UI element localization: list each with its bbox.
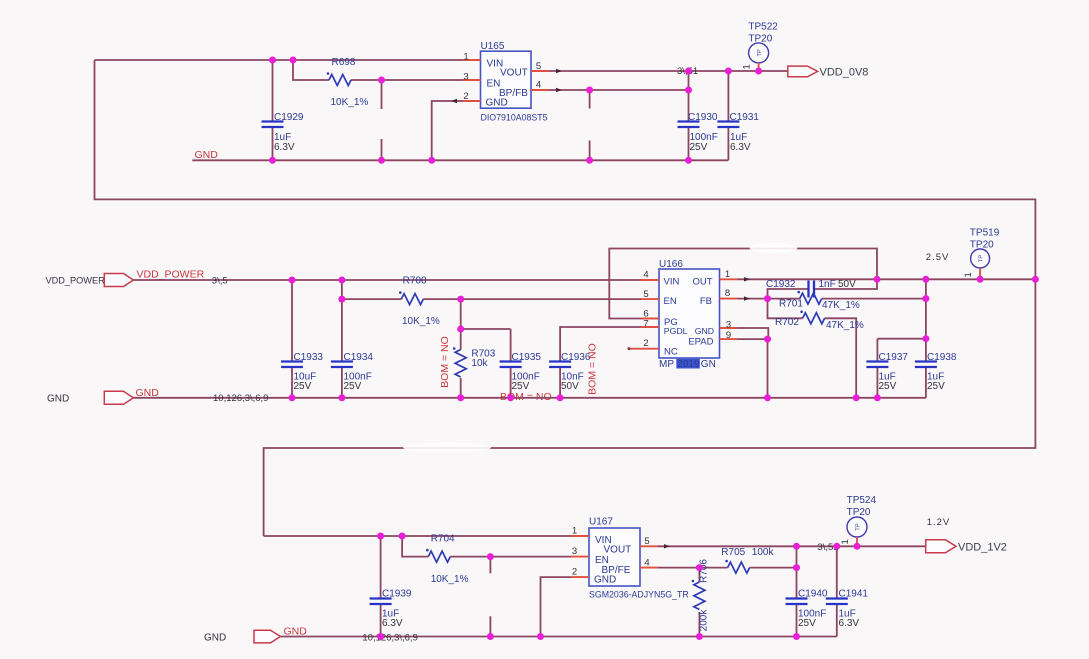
svg-text:C1940: C1940 [798,589,828,600]
svg-text:GND: GND [136,387,160,399]
svg-text:1: 1 [742,64,753,69]
svg-text:3\,5: 3\,5 [212,275,228,286]
svg-text:C1939: C1939 [382,589,412,600]
svg-text:1nF: 1nF [819,279,836,290]
svg-text:VDD_0V8: VDD_0V8 [820,66,869,78]
svg-text:R705: R705 [721,547,745,558]
wire GND rail middle [133,397,926,399]
svg-text:25V: 25V [879,381,897,392]
svg-text:C1935: C1935 [512,352,542,363]
svg-text:GND: GND [47,393,69,404]
svg-text:R700: R700 [403,275,427,286]
resistor R702 [768,299,864,398]
junction dots middle section [289,276,1039,402]
svg-text:1: 1 [463,52,468,63]
wire output caps rail [877,279,926,338]
wire GND rail bottom [280,636,837,638]
capacitor C1930 [678,71,718,160]
svg-text:MP: MP [659,359,674,370]
resistor R701 [768,291,926,311]
svg-text:R704: R704 [431,534,455,545]
svg-text:TP20: TP20 [847,507,871,518]
wire BP/FB net [549,89,689,91]
svg-text:NC: NC [664,347,678,358]
svg-text:4: 4 [536,80,541,91]
capacitor C1937 [866,339,908,398]
svg-text:VDD_POWER: VDD_POWER [46,275,106,285]
svg-text:C1933: C1933 [294,352,324,363]
svg-text:2.5V: 2.5V [926,252,950,263]
resistor R706 (vertical) [692,559,710,637]
svg-text:R702: R702 [775,317,799,328]
svg-text:1: 1 [572,526,577,537]
svg-text:5: 5 [643,289,648,300]
wire tick marks [451,69,750,549]
svg-text:6.3V: 6.3V [730,142,751,153]
svg-text:47K_1%: 47K_1% [822,300,860,311]
junction dots top section [269,57,762,164]
svg-text:10K_1%: 10K_1% [431,574,469,585]
svg-text:3: 3 [726,320,731,331]
svg-text:GN: GN [701,359,716,370]
wire R703/C1935 branch [461,299,511,329]
resistor R705 [721,547,774,573]
pin 3 U165 [463,72,481,83]
svg-text:U165: U165 [481,41,505,52]
svg-text:FB: FB [700,296,712,307]
svg-text:C1930: C1930 [688,112,718,123]
svg-text:2: 2 [643,338,648,349]
wire no-stuff stubs at x=381.5 [381,80,383,160]
svg-text:100k: 100k [752,547,775,558]
svg-text:200k: 200k [699,609,710,632]
wire PGDL net to C1936 [560,327,641,361]
pin 8 U166 [720,288,738,299]
pin 6 U166 [641,309,659,320]
svg-text:2: 2 [572,567,577,578]
resistor R698 [327,57,369,108]
capacitor C1931 [717,71,759,160]
wire VIN net top (to U165 pin1) [95,59,463,61]
pin 2 U165 [463,91,481,102]
wire U165 GND pin2 to rail [432,101,463,160]
svg-text:6.3V: 6.3V [274,142,295,153]
pin 3 U167 [571,546,589,557]
node GND flag (middle) [104,391,133,404]
capacitor C1932 (horizontal, feed-forward) [766,279,877,299]
svg-text:50V: 50V [838,279,856,290]
pin 4 U167 [640,557,658,568]
svg-text:6.3V: 6.3V [382,618,403,629]
testpoint TP522 [742,22,779,71]
capacitor C1935 [500,329,542,398]
svg-text:GND: GND [695,326,714,336]
wire no-stuff stubs at x=490.4 [489,557,491,637]
op-amp U165 [481,41,548,123]
op-amp U167 [589,517,689,600]
node VDD_POWER flag [104,274,133,287]
svg-text:C1938: C1938 [927,352,957,363]
wire U167 GND pin2 to rail [541,577,572,636]
svg-text:U167: U167 [589,517,613,528]
svg-text:VOUT: VOUT [500,68,528,79]
pin 5 U166 [641,289,659,300]
capacitor C1933 [281,280,323,398]
wire BP/FE net with R705 [658,546,797,567]
svg-text:VIN: VIN [664,276,680,287]
svg-text:BOM = NO: BOM = NO [439,336,451,388]
svg-text:25V: 25V [690,142,708,153]
wire FB net [738,298,768,300]
pin 1 U165 [463,52,481,63]
svg-text:VOUT: VOUT [604,545,632,556]
svg-text:1: 1 [963,272,974,277]
wire VOUT net (VDD_0V8) [549,70,788,72]
svg-text:TP: TP [979,255,985,263]
svg-text:47K_1%: 47K_1% [826,320,864,331]
wire VIN net bottom [264,535,571,537]
svg-text:OUT: OUT [692,276,712,287]
pin 5 U165 [531,61,549,72]
svg-text:SGM2036-ADJYN5G_TR: SGM2036-ADJYN5G_TR [589,590,689,600]
svg-text:4: 4 [644,557,649,568]
svg-text:C1937: C1937 [879,352,909,363]
node VDD_1V2 flag [926,540,1007,554]
pin 4 U166 [641,270,659,281]
pin 1 U167 [571,526,589,537]
pin 4 U165 [531,80,549,91]
svg-text:25V: 25V [294,381,312,392]
svg-text:6.3V: 6.3V [839,618,860,629]
svg-text:25V: 25V [798,618,816,629]
svg-text:C1941: C1941 [839,589,869,600]
svg-text:EPAD: EPAD [688,337,713,348]
svg-text:4: 4 [643,270,648,281]
svg-text:C1929: C1929 [274,112,304,123]
svg-text:GND: GND [284,625,308,637]
svg-text:5: 5 [536,61,541,72]
resistor R700 [399,275,440,327]
resistor R703 (vertical, BOM=NO) [453,329,496,398]
node GND flag (bottom) [254,630,280,643]
wire EN branch with R698 [293,60,463,80]
wire R704 branch [402,536,571,557]
svg-text:9: 9 [726,330,731,341]
svg-text:R698: R698 [332,57,356,68]
wire PG pull-up to OUT net [609,249,877,319]
svg-text:3: 3 [463,72,468,83]
svg-text:EN: EN [664,296,677,307]
svg-text:TP: TP [856,523,862,531]
capacitor C1940 [786,568,828,637]
svg-text:C1932: C1932 [766,279,796,290]
wire GND rail top [192,159,728,161]
pin 7 U166 [641,319,659,330]
svg-text:VDD_1V2: VDD_1V2 [958,541,1007,553]
scan artifact blobs [403,243,798,453]
svg-text:1: 1 [725,269,730,280]
svg-text:8: 8 [725,288,730,299]
junction dots bottom section [377,533,860,641]
wire GND pin3 to EPAD [738,328,769,398]
capacitor C1939 [370,536,412,637]
op-amp U166 [659,259,720,370]
svg-text:VDD_POWER: VDD_POWER [137,269,205,281]
svg-text:GND: GND [204,632,226,643]
svg-text:R701: R701 [779,299,803,310]
svg-text:5: 5 [644,536,649,547]
svg-text:TP524: TP524 [847,495,877,506]
capacitor C1938 [915,339,957,398]
svg-text:GND: GND [195,149,219,161]
wire OUT net 2.5V [738,278,1036,280]
svg-text:1: 1 [840,539,851,544]
svg-text:C1931: C1931 [730,112,760,123]
svg-text:25V: 25V [927,381,945,392]
svg-text:10K_1%: 10K_1% [402,316,440,327]
pin 2 U166 (NC) [628,338,659,350]
capacitor C1929 [262,60,304,160]
wire no-stuff stubs at x=589.6 [589,90,591,160]
svg-text:TP522: TP522 [748,22,778,33]
svg-text:2: 2 [463,91,468,102]
pin 3 U166 [720,320,738,331]
svg-text:BOM = NO: BOM = NO [587,343,599,395]
wire 2V5 feed loop (U166 OUT to U165 VIN and to U167 VIN) [95,60,1036,536]
svg-text:2019: 2019 [677,359,700,370]
svg-text:GND: GND [594,575,616,586]
svg-text:TP519: TP519 [970,228,1000,239]
svg-text:1.2V: 1.2V [927,517,951,528]
svg-text:PGDL: PGDL [664,326,688,336]
wire EN branch from VDD [342,280,641,299]
testpoint TP519 [963,228,1000,279]
svg-text:3: 3 [572,546,577,557]
capacitor C1936 [549,352,591,398]
pin 1 U166 [720,269,738,280]
pin 9 U166 [720,330,738,341]
capacitor C1941 [826,546,869,636]
svg-text:10k: 10k [471,358,488,369]
capacitor C1934 [331,299,374,398]
svg-text:TP: TP [757,49,763,57]
svg-text:DIO7910A08ST5: DIO7910A08ST5 [481,113,548,123]
svg-text:25V: 25V [344,381,362,392]
svg-text:10,126,3\,6,9: 10,126,3\,6,9 [362,632,417,643]
wire VOUT net (VDD_1V2) [658,545,926,547]
pin 2 U167 [571,567,589,578]
pin 5 U167 [640,536,658,547]
svg-text:10K_1%: 10K_1% [331,97,369,108]
testpoint TP524 [840,495,877,545]
node VDD_0V8 flag [788,66,869,78]
svg-text:GND: GND [486,98,508,109]
wire VDD_POWER net [133,279,641,281]
resistor R704 [426,534,469,586]
svg-text:10,126,3\,6,9: 10,126,3\,6,9 [213,393,268,404]
svg-text:50V: 50V [561,381,579,392]
svg-text:7: 7 [643,319,648,330]
svg-text:C1934: C1934 [344,352,374,363]
